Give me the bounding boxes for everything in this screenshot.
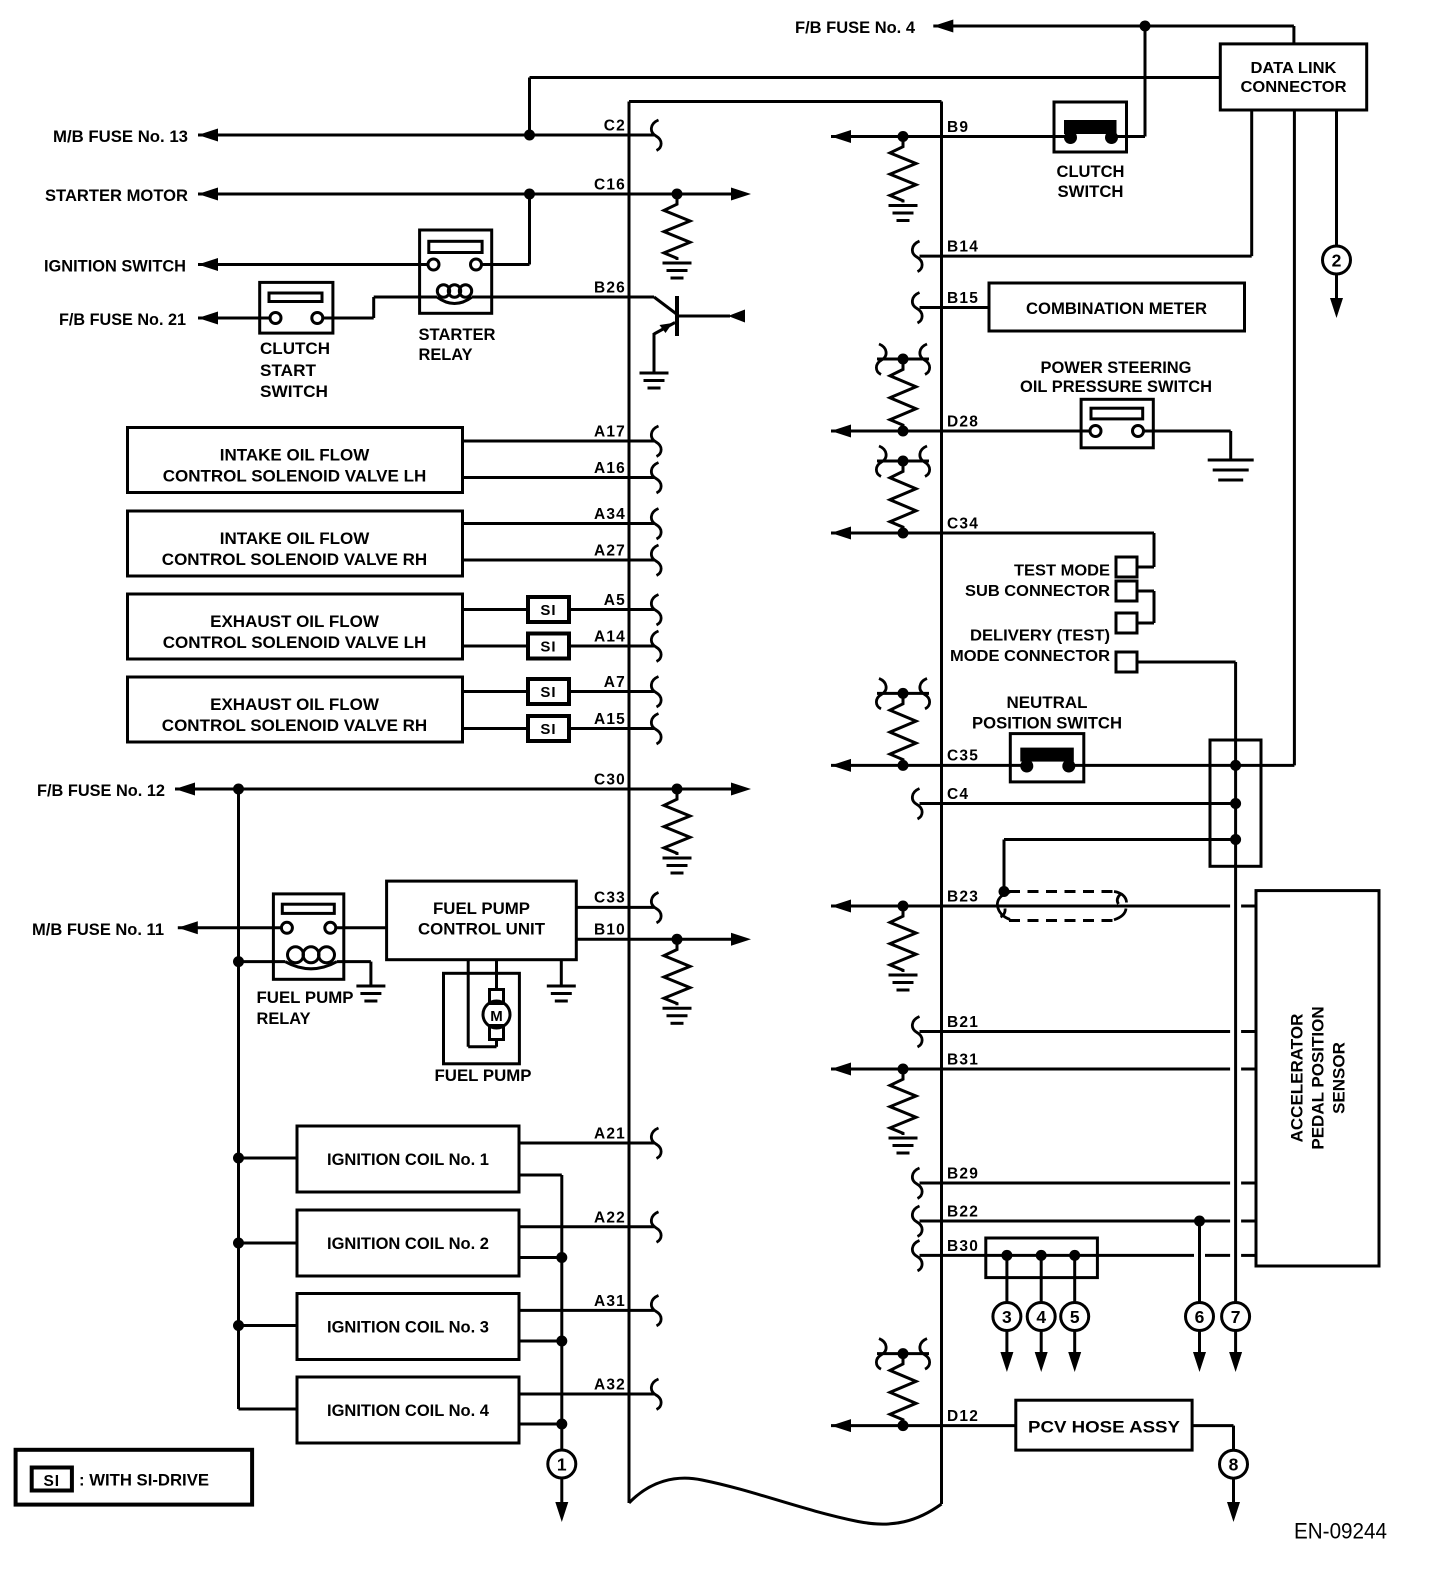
svg-text:NEUTRAL: NEUTRAL <box>1007 693 1088 712</box>
shielded cable (dashed) around B23 wire <box>1009 890 1119 893</box>
wire: IGNITION COIL No. 4 ground-side terminal <box>519 1423 562 1426</box>
svg-text:A21: A21 <box>594 1126 626 1143</box>
svg-text:SI: SI <box>540 721 556 738</box>
wire: ECM pin B22 to accelerator pedal position sensor <box>920 1220 1231 1223</box>
svg-text:STARTER: STARTER <box>419 325 496 344</box>
IGNITION COIL No. 2 box <box>297 1210 519 1276</box>
svg-text:A15: A15 <box>594 711 626 728</box>
node: junction to circled 4 <box>1036 1250 1047 1261</box>
svg-text:CONTROL SOLENOID VALVE RH: CONTROL SOLENOID VALVE RH <box>162 716 427 735</box>
wire: solenoid valve to ECM pin A5 <box>463 608 529 611</box>
wire: ECM pin C34 to test mode sub connector <box>831 527 851 540</box>
wire: vertical from C16 junction down to starter relay contact <box>528 194 531 265</box>
resistor: C16 pull-down <box>664 198 690 260</box>
node: junction on coil common <box>556 1336 567 1347</box>
svg-text:A34: A34 <box>594 506 626 523</box>
wire: solenoid valve to ECM pin A27 <box>463 559 655 562</box>
svg-text:POWER STEERING: POWER STEERING <box>1041 358 1192 377</box>
SI option box on pin A5 line <box>528 597 569 622</box>
connector break squiggle at pin B22 <box>912 1206 922 1237</box>
svg-text:IGNITION COIL No. 1: IGNITION COIL No. 1 <box>327 1150 489 1169</box>
motor M of fuel pump <box>490 990 504 1004</box>
wire: ECM pin B21 to accelerator pedal position sensor <box>920 1030 1231 1033</box>
joint connector box on right risers <box>1210 740 1261 866</box>
connector break squiggle at pin C4 <box>912 789 922 820</box>
wire: F/B FUSE No. 21 to clutch start switch <box>198 312 218 325</box>
wire: IGNITION COIL No. 1 to ECM pin A21 <box>519 1142 654 1145</box>
wire: STARTER MOTOR line through ECM pin C16 <box>198 188 218 201</box>
svg-text:F/B FUSE No. 21: F/B FUSE No. 21 <box>59 310 186 329</box>
wire: drop to circled 5 <box>1073 1255 1076 1302</box>
joint connector box on B30 line <box>986 1238 1098 1278</box>
test mode sub connector pin 1 <box>1116 557 1137 577</box>
node: junction D28 shield/resistor <box>898 426 909 437</box>
wire: ECM pin C35 to neutral position switch <box>831 759 851 772</box>
svg-text:D12: D12 <box>947 1408 979 1425</box>
svg-text:PEDAL POSITION: PEDAL POSITION <box>1309 1006 1328 1149</box>
starter relay <box>420 230 492 313</box>
svg-text:RELAY: RELAY <box>257 1009 312 1028</box>
wire: vertical from F/B4 junction down to clutch switch <box>1144 26 1147 137</box>
SI option box on pin A14 line <box>528 634 569 659</box>
wire: switch to ground <box>1144 430 1231 433</box>
wire: joint connector to B23 shield drain <box>1004 838 1236 841</box>
wire: FPCU through ECM pin B10 <box>576 938 734 941</box>
svg-text:B29: B29 <box>947 1166 979 1183</box>
svg-text:B22: B22 <box>947 1204 979 1221</box>
wire: ECM pin D12 to PCV hose assy <box>831 1419 851 1432</box>
wire: solenoid valve to ECM pin A16 <box>463 476 655 479</box>
svg-text:OIL PRESSURE SWITCH: OIL PRESSURE SWITCH <box>1020 377 1212 396</box>
connector break squiggle at pin A34 <box>651 509 661 540</box>
connector break squiggle at pin A7 <box>651 677 661 708</box>
connector break squiggle at pin B14 <box>912 241 922 272</box>
svg-text:CONTROL SOLENOID VALVE LH: CONTROL SOLENOID VALVE LH <box>163 633 427 652</box>
delivery (test) mode connector pin 3 <box>1116 613 1137 633</box>
connector break squiggle at pin B15 <box>912 293 922 324</box>
node: junction clutch switch feed <box>1140 21 1151 32</box>
delivery (test) mode connector pin 4 <box>1116 652 1137 672</box>
node: junction C4/joint <box>1230 798 1241 809</box>
svg-text:4: 4 <box>1036 1307 1046 1327</box>
wire: ECM pin B23 to accelerator pedal position sensor <box>831 900 851 913</box>
svg-text:: WITH SI-DRIVE: : WITH SI-DRIVE <box>79 1471 209 1490</box>
svg-text:INTAKE OIL FLOW: INTAKE OIL FLOW <box>220 446 370 465</box>
svg-text:EN-09244: EN-09244 <box>1294 1519 1387 1544</box>
resistor: C30 pull with ground <box>664 793 690 855</box>
node: junction on coil common <box>556 1252 567 1263</box>
node: junction B23 resistor <box>898 901 909 912</box>
wire: IGNITION COIL No. 2 to ECM pin A22 <box>519 1225 654 1228</box>
wire: pin2 to delivery connector pin3 <box>1137 590 1154 593</box>
ground: FPCU <box>547 985 576 988</box>
svg-text:A5: A5 <box>604 592 626 609</box>
wire: ECM pin C4 to joint connector <box>920 802 1236 805</box>
svg-text:IGNITION SWITCH: IGNITION SWITCH <box>44 257 186 276</box>
node: junction D12 shield/resistor <box>898 1420 909 1431</box>
circled 5 continuation symbol <box>1061 1303 1089 1331</box>
node: junction on coil common <box>556 1419 567 1430</box>
connector break squiggle at pin A16 <box>651 463 661 494</box>
COMBINATION METER box <box>989 283 1245 331</box>
node: junction on C2 line at bus drop <box>524 130 535 141</box>
connector break squiggle at pin A15 <box>651 714 661 745</box>
node: junction C35 shield/resistor <box>898 760 909 771</box>
ground: power steering switch <box>1208 459 1254 462</box>
svg-text:FUEL PUMP: FUEL PUMP <box>257 988 354 1007</box>
wire: relay coil to ground <box>337 960 371 963</box>
connector break squiggle at pin A14 <box>651 631 661 662</box>
wire: DLC pin to circled 2 <box>1335 110 1338 246</box>
svg-text:START: START <box>260 361 317 380</box>
starter relay coil <box>437 297 472 304</box>
shielded-wire symbol with resistor above C34 <box>877 460 929 463</box>
svg-text:CONTROL SOLENOID VALVE LH: CONTROL SOLENOID VALVE LH <box>163 467 427 486</box>
circled 2 continuation symbol <box>1323 246 1351 274</box>
circled 4 continuation symbol <box>1027 1303 1055 1331</box>
svg-text:B30: B30 <box>947 1238 979 1255</box>
svg-text:B21: B21 <box>947 1014 979 1031</box>
wire: M/B FUSE No. 11 to fuel pump relay contact <box>178 921 198 934</box>
svg-text:POSITION SWITCH: POSITION SWITCH <box>972 714 1122 733</box>
svg-text:SI: SI <box>540 602 556 619</box>
wire: FPCU ground pin <box>560 960 563 986</box>
svg-text:RELAY: RELAY <box>419 345 474 364</box>
svg-text:A32: A32 <box>594 1377 626 1394</box>
clutch start switch (relay-style box) <box>260 282 333 333</box>
node: junction supply rail to relay coil <box>233 956 244 967</box>
node: junction C30 resistor <box>672 784 683 795</box>
wire: solenoid valve to ECM pin A7 <box>463 690 529 693</box>
transistor Q (starter cut) inside ECM at B26 <box>654 297 677 314</box>
ECM (engine control module) outline box with torn wavy bottom edge <box>629 100 942 103</box>
svg-text:C35: C35 <box>947 748 979 765</box>
connector break squiggle at pin A31 <box>651 1295 661 1326</box>
svg-text:STARTER MOTOR: STARTER MOTOR <box>45 186 188 205</box>
wire: IGNITION COIL No. 2 ground-side terminal <box>519 1256 562 1259</box>
svg-text:CONTROL SOLENOID VALVE RH: CONTROL SOLENOID VALVE RH <box>162 550 427 569</box>
node: junction B9 resistor <box>898 131 909 142</box>
ground: transistor emitter <box>640 372 669 375</box>
wire: starter relay contact to C16 branch vertical <box>481 263 530 266</box>
svg-text:SWITCH: SWITCH <box>1058 182 1124 201</box>
node: junction supply rail <box>233 784 244 795</box>
circled 1 continuation symbol <box>548 1450 576 1478</box>
wire: ECM pin B29 to accelerator pedal position sensor <box>920 1182 1231 1185</box>
node: junction shield-branch/joint <box>1230 834 1241 845</box>
wire: IGNITION COIL No. 1 ground-side terminal <box>519 1174 562 1177</box>
wire: solenoid valve to ECM pin A17 <box>463 440 655 443</box>
connector break squiggle at pin A21 <box>651 1128 661 1159</box>
connector break squiggle at pin B29 <box>912 1168 922 1199</box>
svg-text:CLUTCH: CLUTCH <box>260 339 330 358</box>
wire: supply rail to IGNITION COIL No. 3 <box>239 1324 298 1327</box>
node: junction on supply rail <box>233 1238 244 1249</box>
PCV HOSE ASSY box <box>1016 1400 1192 1450</box>
circled 6 continuation symbol <box>1186 1303 1214 1331</box>
svg-text:SWITCH: SWITCH <box>260 382 328 401</box>
wire: supply rail to IGNITION COIL No. 2 <box>239 1242 298 1245</box>
wire: vertical from bus down to C2 line <box>528 78 531 136</box>
svg-text:IGNITION COIL No. 2: IGNITION COIL No. 2 <box>327 1234 489 1253</box>
circled 7 continuation symbol <box>1222 1303 1250 1331</box>
connector break squiggle at pin A27 <box>651 545 661 576</box>
wire: pin4 to joint connector <box>1137 661 1236 664</box>
node: junction on supply rail <box>233 1320 244 1331</box>
svg-text:A7: A7 <box>604 674 626 691</box>
shielded-wire symbol with resistor above C35 <box>877 692 929 695</box>
svg-text:CONTROL UNIT: CONTROL UNIT <box>418 920 546 939</box>
INTAKE OIL FLOW CONTROL SOLENOID VALVE RH box <box>128 511 463 576</box>
svg-text:SI: SI <box>43 1473 60 1490</box>
svg-text:6: 6 <box>1195 1307 1205 1327</box>
FUEL PUMP CONTROL UNIT box <box>387 881 577 960</box>
circled 8 continuation symbol <box>1220 1450 1248 1478</box>
wire: solenoid valve to ECM pin A34 <box>463 522 655 525</box>
wire: supply rail vertical to ignition coils <box>237 789 240 1409</box>
wire: supply rail to IGNITION COIL No. 4 <box>239 1408 298 1411</box>
node: junction B10 resistor <box>672 934 683 945</box>
wire: IGNITION SWITCH to starter relay contact <box>198 258 218 271</box>
shielded-wire symbol with resistor above D28 <box>877 358 929 361</box>
svg-text:SI: SI <box>540 684 556 701</box>
ACCELERATOR PEDAL POSITION SENSOR box <box>1256 891 1379 1266</box>
svg-text:B9: B9 <box>947 119 969 136</box>
svg-text:B31: B31 <box>947 1052 979 1069</box>
svg-text:DATA LINK: DATA LINK <box>1251 60 1337 77</box>
EXHAUST OIL FLOW CONTROL SOLENOID VALVE LH box <box>128 594 463 659</box>
svg-text:EXHAUST OIL FLOW: EXHAUST OIL FLOW <box>210 695 380 714</box>
svg-text:A14: A14 <box>594 629 626 646</box>
svg-text:7: 7 <box>1231 1307 1241 1327</box>
wire: ignition coil common down to circled 1 <box>560 1175 563 1450</box>
svg-text:C33: C33 <box>594 890 626 907</box>
SI option box on pin A7 line <box>528 679 569 704</box>
svg-text:B14: B14 <box>947 239 979 256</box>
wire: bus from C2 junction to DATA LINK CONNECTOR (y=77) <box>530 76 1221 79</box>
svg-text:IGNITION COIL No. 3: IGNITION COIL No. 3 <box>327 1318 489 1337</box>
wire: FPCU to ECM pin C33 <box>576 906 654 909</box>
svg-text:F/B FUSE No. 12: F/B FUSE No. 12 <box>37 781 165 800</box>
wire: DLC pin to ECM pin B14 <box>1250 110 1253 256</box>
svg-text:A17: A17 <box>594 424 626 441</box>
svg-text:B15: B15 <box>947 290 979 307</box>
wire: solenoid valve to ECM pin A15 <box>463 727 529 730</box>
svg-text:8: 8 <box>1229 1455 1239 1475</box>
node: junction to circled 5 <box>1069 1250 1080 1261</box>
circled 3 continuation symbol <box>993 1303 1021 1331</box>
svg-text:M/B FUSE No. 13: M/B FUSE No. 13 <box>53 127 188 146</box>
wire: drop to circled 3 <box>1005 1255 1008 1302</box>
svg-text:COMBINATION METER: COMBINATION METER <box>1026 299 1207 318</box>
connector break squiggle at pin B30 <box>912 1240 922 1271</box>
IGNITION COIL No. 1 box <box>297 1126 519 1192</box>
wire: drop to circled 4 <box>1040 1255 1043 1302</box>
svg-text:A27: A27 <box>594 543 626 560</box>
wire: solenoid valve to ECM pin A14 <box>463 645 529 648</box>
node: shield drain connection on dashed shield <box>999 886 1010 897</box>
wire: M/B FUSE No. 13 to ECM pin C2 <box>198 129 218 142</box>
wire: relay contact to fuel pump control unit <box>336 926 387 929</box>
svg-text:FUEL PUMP: FUEL PUMP <box>435 1066 532 1085</box>
svg-text:B10: B10 <box>594 922 626 939</box>
resistor: B31 pull with ground <box>890 1073 916 1135</box>
connector break squiggle at pin A32 <box>651 1379 661 1410</box>
svg-text:C16: C16 <box>594 177 626 194</box>
svg-text:B26: B26 <box>594 280 626 297</box>
wire: F/B FUSE No. 12 through ECM pin C30 <box>175 783 195 796</box>
wire: neutral position switch to DLC riser <box>1068 764 1294 767</box>
wire: F/B FUSE No. 4 to DATA LINK CONNECTOR top <box>933 20 953 33</box>
wire: starter relay coil to ECM pin B26 <box>472 296 654 299</box>
neutral position switch (closed contact) <box>1010 734 1084 782</box>
svg-text:C30: C30 <box>594 772 626 789</box>
node: junction C16/starter-relay branch <box>524 189 535 200</box>
svg-text:SENSOR: SENSOR <box>1330 1042 1349 1114</box>
wire: ECM pin B9 to clutch switch <box>831 130 851 143</box>
clutch switch (closed contact) <box>1054 102 1127 152</box>
ground: fuel pump relay coil <box>356 985 385 988</box>
svg-text:SI: SI <box>540 639 556 656</box>
IGNITION COIL No. 3 box <box>297 1294 519 1360</box>
resistor: B10 pull with ground <box>664 943 690 1005</box>
resistor: B9 pull with ground <box>890 141 916 203</box>
connector break squiggle at pin C33 <box>651 892 661 923</box>
svg-text:C2: C2 <box>604 118 626 135</box>
connector break squiggle at pin B21 <box>912 1017 922 1048</box>
node: junction to circled 3 <box>1001 1250 1012 1261</box>
SI option box on pin A15 line <box>528 716 569 741</box>
svg-text:EXHAUST OIL FLOW: EXHAUST OIL FLOW <box>210 612 380 631</box>
wire: IGNITION COIL No. 3 ground-side terminal <box>519 1340 562 1343</box>
DATA LINK CONNECTOR box <box>1220 44 1366 110</box>
connector break squiggle at pin A17 <box>651 426 661 457</box>
INTAKE OIL FLOW CONTROL SOLENOID VALVE LH box <box>128 428 463 493</box>
wire: ECM pin B31 to accelerator pedal position sensor <box>831 1063 851 1076</box>
wire: clutch start switch to starter relay coil <box>323 317 374 320</box>
svg-text:TEST MODE: TEST MODE <box>1014 563 1110 580</box>
wire: FPCU to fuel pump motor (left pin) <box>467 960 470 1047</box>
wire: DLC pin to neutral position switch net (long riser) <box>1293 110 1296 765</box>
svg-text:CLUTCH: CLUTCH <box>1057 162 1125 181</box>
svg-text:M/B FUSE No. 11: M/B FUSE No. 11 <box>32 920 164 939</box>
wire: rail to fuel pump relay coil <box>239 960 286 963</box>
svg-text:3: 3 <box>1002 1307 1012 1327</box>
svg-text:SUB CONNECTOR: SUB CONNECTOR <box>965 583 1110 600</box>
wire: B22 branch down to circled 6 <box>1198 1221 1201 1303</box>
wire: IGNITION COIL No. 3 to ECM pin A31 <box>519 1309 654 1312</box>
node: junction on supply rail <box>233 1153 244 1164</box>
svg-text:CONNECTOR: CONNECTOR <box>1241 79 1347 96</box>
wire: FPCU to fuel pump motor (right pin) <box>495 960 498 990</box>
shielded-wire symbol with resistor above D12 <box>877 1352 929 1355</box>
FUEL PUMP box <box>444 973 520 1064</box>
svg-text:ACCELERATOR: ACCELERATOR <box>1288 1014 1307 1143</box>
resistor: B23 pull with ground <box>890 910 916 972</box>
connector break squiggle at pin C2 <box>651 120 661 151</box>
power steering oil pressure switch box <box>1081 399 1153 448</box>
svg-text:IGNITION COIL No. 4: IGNITION COIL No. 4 <box>327 1401 490 1420</box>
test mode sub connector pin 2 <box>1116 581 1137 601</box>
svg-text:A31: A31 <box>594 1293 626 1310</box>
svg-text:A22: A22 <box>594 1209 626 1226</box>
wire: ECM pin B15 to combination meter <box>920 306 990 309</box>
wire: supply rail to IGNITION COIL No. 1 <box>239 1157 298 1160</box>
svg-text:5: 5 <box>1070 1307 1080 1327</box>
svg-text:1: 1 <box>557 1455 567 1475</box>
svg-text:C34: C34 <box>947 516 979 533</box>
fuel pump relay box <box>273 894 343 979</box>
svg-text:FUEL PUMP: FUEL PUMP <box>433 899 530 918</box>
svg-text:INTAKE OIL FLOW: INTAKE OIL FLOW <box>220 529 370 548</box>
wire: ECM pin B30 to accelerator pedal position sensor <box>920 1254 1195 1257</box>
svg-text:F/B FUSE No. 4: F/B FUSE No. 4 <box>795 18 916 37</box>
node: junction C35/joint <box>1230 760 1241 771</box>
IGNITION COIL No. 4 box <box>297 1377 519 1443</box>
wire: PCV hose assy to circled 8 <box>1192 1424 1233 1427</box>
wire: ECM pin D28 to power steering oil pressure switch <box>831 425 851 438</box>
svg-text:B23: B23 <box>947 889 979 906</box>
connector break squiggle at pin A22 <box>651 1212 661 1243</box>
svg-text:DELIVERY (TEST): DELIVERY (TEST) <box>970 628 1110 645</box>
svg-text:2: 2 <box>1332 251 1342 271</box>
svg-text:PCV HOSE ASSY: PCV HOSE ASSY <box>1028 1418 1181 1437</box>
fuel pump relay coil <box>285 962 337 969</box>
svg-text:A16: A16 <box>594 460 626 477</box>
node: junction C34 shield/resistor <box>898 528 909 539</box>
svg-text:MODE CONNECTOR: MODE CONNECTOR <box>950 648 1110 665</box>
legend box: SI = WITH SI-DRIVE <box>16 1450 253 1505</box>
node: junction B31 resistor <box>898 1064 909 1075</box>
EXHAUST OIL FLOW CONTROL SOLENOID VALVE RH box <box>128 677 463 742</box>
node: junction B22 branch to circled 6 <box>1194 1216 1205 1227</box>
svg-text:M: M <box>490 1008 503 1025</box>
svg-text:D28: D28 <box>947 414 979 431</box>
wire: IGNITION COIL No. 4 to ECM pin A32 <box>519 1393 654 1396</box>
connector break squiggle at pin A5 <box>651 595 661 626</box>
node: junction C16 pull resistor <box>672 189 683 200</box>
svg-text:C4: C4 <box>947 786 969 803</box>
